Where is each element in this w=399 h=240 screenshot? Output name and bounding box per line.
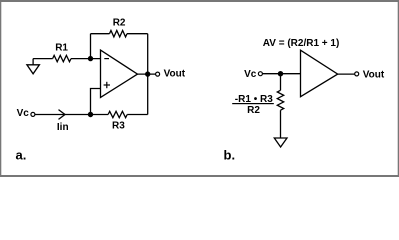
svg-text:AV = (R2/R1 + 1): AV = (R2/R1 + 1) bbox=[263, 38, 340, 49]
svg-text:b.: b. bbox=[224, 147, 236, 162]
svg-text:R2: R2 bbox=[247, 105, 260, 116]
svg-text:a.: a. bbox=[16, 147, 27, 162]
svg-text:Vc: Vc bbox=[244, 69, 257, 80]
svg-text:Vc: Vc bbox=[17, 108, 30, 119]
svg-text:Vout: Vout bbox=[164, 69, 186, 80]
svg-text:R3: R3 bbox=[112, 120, 125, 131]
svg-text:Vout: Vout bbox=[363, 70, 385, 81]
svg-text:R1: R1 bbox=[55, 42, 68, 53]
svg-text:R2: R2 bbox=[113, 17, 126, 28]
svg-text:-R1 • R3: -R1 • R3 bbox=[235, 94, 273, 105]
svg-text:Iin: Iin bbox=[57, 122, 69, 133]
